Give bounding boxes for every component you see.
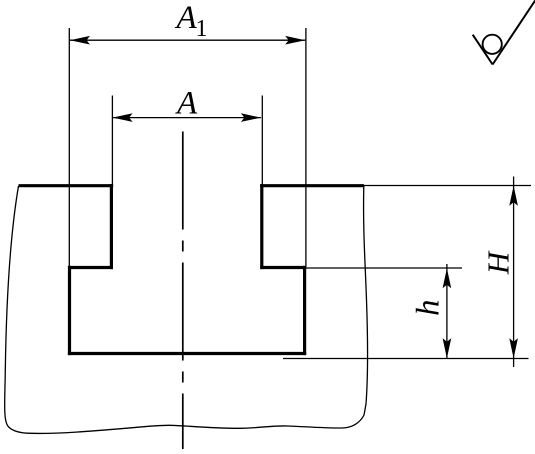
svg-text:A: A xyxy=(175,0,198,36)
arrowhead A right xyxy=(241,113,261,122)
extension line A1 right xyxy=(305,28,307,267)
extension line A1 left xyxy=(68,28,70,267)
extension line A right xyxy=(261,96,263,186)
arrowhead H top xyxy=(509,186,518,206)
arrowhead H bottom xyxy=(509,338,518,358)
part outline: cavity right wall (thick) xyxy=(303,266,306,355)
dimension line h xyxy=(446,264,448,358)
part outline: cavity bottom (thick) xyxy=(68,352,306,355)
part outline: slot left wall (thick) xyxy=(110,184,113,269)
arrowhead A left xyxy=(113,113,133,122)
centerline (dash-dot) xyxy=(182,132,184,450)
surface finish symbol: left arm of V xyxy=(473,35,493,65)
part outline: left shoulder step (thick) xyxy=(68,266,113,269)
break line bottom (thin wavy) xyxy=(27,404,366,433)
arrowhead h top xyxy=(443,268,452,288)
break line left (thin wavy) xyxy=(5,186,27,433)
arrowhead A1 left xyxy=(70,36,90,45)
svg-text:A: A xyxy=(175,85,198,121)
part outline: slot right wall (thick) xyxy=(260,184,263,269)
part outline: top surface left (thick) xyxy=(19,184,114,187)
svg-text:h: h xyxy=(411,300,447,317)
break line right (thin wavy) xyxy=(364,186,368,404)
arrowhead A1 right xyxy=(285,36,305,45)
svg-text:H: H xyxy=(480,250,515,275)
dimension line A1 xyxy=(70,39,305,41)
surface finish symbol: right arm of V (long stroke to corner) xyxy=(493,0,535,65)
part outline: right shoulder step (thick) xyxy=(260,266,306,269)
part outline: top surface right (thick) xyxy=(260,184,364,187)
dimension line A xyxy=(113,117,261,119)
extension line H top (top surface extended) xyxy=(364,185,531,187)
arrowhead h bottom xyxy=(443,338,452,358)
surface finish symbol: circle xyxy=(483,35,502,54)
extension line A left xyxy=(111,96,113,186)
extension line h top (step extended) xyxy=(306,267,462,269)
svg-text:1: 1 xyxy=(196,16,208,42)
part outline: cavity left wall (thick) xyxy=(68,266,71,355)
extension line H/h bottom xyxy=(283,358,529,360)
dimension line H xyxy=(513,177,515,368)
